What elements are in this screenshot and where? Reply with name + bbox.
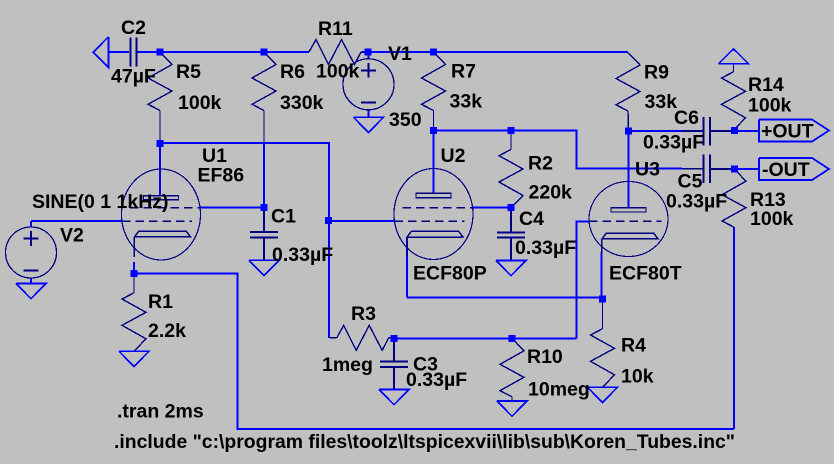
capacitor C5 xyxy=(703,155,705,184)
svg-text:ECF80T: ECF80T xyxy=(609,263,682,285)
wire C3 bottom lead xyxy=(393,367,395,390)
svg-text:C5: C5 xyxy=(678,171,703,193)
vacuum tube U1 EF86 xyxy=(122,169,201,260)
svg-text:R11: R11 xyxy=(318,18,353,40)
wire R6 bottom to C1 junction xyxy=(263,143,265,208)
junction R4 top xyxy=(599,296,606,303)
wire R9 junction to U3 anode xyxy=(628,131,630,208)
resistor R2 xyxy=(510,131,512,150)
capacitor C3 xyxy=(380,361,408,363)
junction R7 top xyxy=(430,49,437,56)
resistor R1 xyxy=(133,274,135,294)
svg-text:R5: R5 xyxy=(176,61,201,83)
svg-text:0.33µF: 0.33µF xyxy=(666,191,727,213)
svg-text:R4: R4 xyxy=(621,335,646,357)
wire V1 bottom stem xyxy=(368,110,370,117)
wire R5 bottom to U1 anode xyxy=(159,143,161,196)
input port arrow xyxy=(93,37,108,68)
svg-text:.tran 2ms: .tran 2ms xyxy=(117,401,204,423)
ground at R10 xyxy=(497,401,527,416)
voltage source V2 xyxy=(6,227,57,278)
wire U3 grid to grid node xyxy=(577,221,590,338)
svg-text:10k: 10k xyxy=(621,366,654,388)
svg-text:0.33µF: 0.33µF xyxy=(406,369,467,391)
output port +OUT xyxy=(759,120,829,142)
junction R3 C3 xyxy=(391,335,398,342)
resistor R7 xyxy=(422,52,446,111)
resistor R11 xyxy=(309,40,361,65)
wire R7 junction to U2 anode xyxy=(433,131,435,194)
wire U3 cathode down xyxy=(601,252,603,299)
ground at R4 xyxy=(588,387,618,402)
svg-text:V1: V1 xyxy=(388,43,412,65)
output port -OUT xyxy=(759,158,829,180)
wire node A to U2 grid1 xyxy=(329,220,395,222)
wire C3 top lead xyxy=(393,338,395,361)
wire U2 cathode to R4 junction xyxy=(407,297,603,299)
svg-text:C4: C4 xyxy=(519,208,544,230)
svg-text:0.33µF: 0.33µF xyxy=(272,244,333,266)
wire U2 cathode down xyxy=(406,237,408,298)
svg-text:100k: 100k xyxy=(750,208,794,230)
svg-text:ECF80P: ECF80P xyxy=(413,263,487,285)
ground at V1 xyxy=(354,117,384,132)
svg-text:0.33µF: 0.33µF xyxy=(515,237,576,259)
svg-text:33k: 33k xyxy=(645,91,678,113)
resistor R9 xyxy=(616,53,640,112)
wire C4 bottom lead xyxy=(510,238,512,261)
wire C1 top lead xyxy=(263,208,265,233)
wire U1 grid2 to C1 junction xyxy=(200,207,264,209)
wire R5 bottom junction to R3 node xyxy=(160,143,329,338)
svg-text:100k: 100k xyxy=(316,61,360,83)
svg-text:C1: C1 xyxy=(271,206,296,228)
svg-text:0.33µF: 0.33µF xyxy=(643,132,704,154)
wire R11 to R9 (top rail right) xyxy=(362,51,629,53)
wire C5 to -OUT xyxy=(710,168,735,170)
wire C1 bottom lead xyxy=(263,237,265,260)
wire R13 bottom to bottom rail xyxy=(733,227,735,429)
ground above R14 xyxy=(719,49,749,64)
capacitor C6 xyxy=(703,117,705,146)
junction C4 top xyxy=(508,204,515,211)
svg-text:SINE(0 1 1kHz): SINE(0 1 1kHz) xyxy=(32,191,169,213)
svg-text:330k: 330k xyxy=(280,92,324,114)
junction R5 bottom xyxy=(157,140,164,147)
svg-text:R14: R14 xyxy=(748,74,784,96)
junction U1 cathode xyxy=(131,270,138,277)
svg-text:-OUT: -OUT xyxy=(762,159,810,181)
svg-text:47µF: 47µF xyxy=(111,66,156,88)
svg-text:R6: R6 xyxy=(280,61,305,83)
svg-text:+OUT: +OUT xyxy=(761,121,814,143)
svg-text:1meg: 1meg xyxy=(322,354,373,376)
wire V2 bottom stem xyxy=(30,278,32,284)
capacitor C4 xyxy=(497,231,525,233)
wire C4 top lead xyxy=(510,208,512,233)
svg-text:100k: 100k xyxy=(748,95,792,117)
voltage source V1 xyxy=(343,59,394,110)
svg-text:350: 350 xyxy=(389,109,422,131)
junction R9 bottom xyxy=(625,128,632,135)
svg-text:2.2k: 2.2k xyxy=(148,320,186,342)
svg-text:.include "c:\program files\too: .include "c:\program files\toolz\ltspice… xyxy=(114,431,735,453)
svg-text:100k: 100k xyxy=(178,92,222,114)
wire input to C2 xyxy=(109,51,130,53)
junction R2 top xyxy=(508,127,515,134)
junction V1 top xyxy=(365,49,372,56)
wire U1 cathode down xyxy=(133,262,135,274)
vacuum tube U3 ECF80T xyxy=(589,182,668,257)
svg-text:220k: 220k xyxy=(529,182,573,204)
wire V2 to U1 grid1 xyxy=(31,220,122,222)
svg-text:C6: C6 xyxy=(674,107,699,129)
junction R10 top xyxy=(509,335,516,342)
resistor R6 xyxy=(252,52,276,111)
junction C6 +OUT xyxy=(731,127,738,134)
junction C5 -OUT xyxy=(731,166,738,173)
svg-text:U3: U3 xyxy=(635,159,660,181)
resistor R5 xyxy=(148,52,172,111)
wire R7 bottom to C5 xyxy=(434,131,683,169)
wire C2 to R11 (top rail left) xyxy=(136,51,309,53)
svg-text:U2: U2 xyxy=(441,145,466,167)
svg-text:V2: V2 xyxy=(60,225,84,247)
wire U2 grid2 to C4 junction xyxy=(473,207,511,209)
ground at C4 xyxy=(496,261,526,276)
wire V2 top stem xyxy=(30,221,32,228)
junction U2 grid node xyxy=(325,217,332,224)
ground at C1 xyxy=(249,260,279,275)
wire U1 cathode junction to bottom rail xyxy=(134,274,734,430)
ground at R1 xyxy=(119,351,149,366)
capacitor C2 xyxy=(129,38,131,67)
capacitor C1 xyxy=(250,231,278,233)
wire C6 to +OUT xyxy=(710,130,735,132)
resistor R3 xyxy=(330,337,337,339)
svg-text:R2: R2 xyxy=(528,153,553,175)
svg-text:R10: R10 xyxy=(527,346,563,368)
ground at V2 xyxy=(16,284,46,299)
ground at C3 xyxy=(379,390,409,405)
wire V1 top stem xyxy=(368,52,370,59)
svg-text:33k: 33k xyxy=(450,91,483,113)
junction R6 top xyxy=(261,49,268,56)
svg-text:C2: C2 xyxy=(121,17,146,39)
svg-text:R3: R3 xyxy=(351,303,376,325)
resistor R14 xyxy=(733,64,735,72)
svg-text:10meg: 10meg xyxy=(528,379,590,401)
junction R7 bottom xyxy=(430,127,437,134)
resistor R13 xyxy=(722,169,746,228)
junction C1 top xyxy=(261,204,268,211)
wire R9 junction to C6 xyxy=(629,130,683,132)
svg-text:EF86: EF86 xyxy=(198,165,245,187)
wire R3 node to U3 grid node xyxy=(394,337,577,339)
vacuum tube U2 ECF80P xyxy=(394,169,473,260)
svg-text:R7: R7 xyxy=(451,61,476,83)
svg-text:R1: R1 xyxy=(148,291,173,313)
junction R5 top xyxy=(157,49,164,56)
svg-text:R9: R9 xyxy=(644,62,669,84)
resistor R10 xyxy=(500,338,524,397)
resistor R4 xyxy=(602,299,604,329)
